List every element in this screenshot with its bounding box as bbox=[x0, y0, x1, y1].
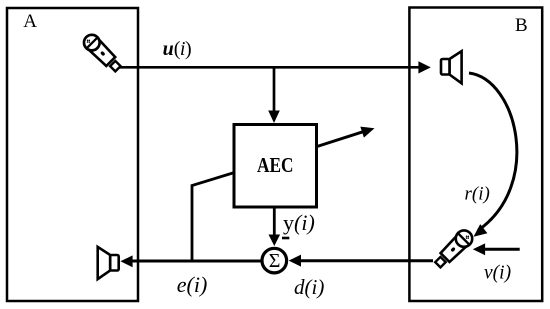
svg-text:AEC: AEC bbox=[257, 153, 294, 177]
room A box bbox=[7, 8, 138, 301]
svg-text:A: A bbox=[23, 11, 37, 32]
svg-text:Σ: Σ bbox=[269, 250, 281, 272]
echo path r(i) curve from loudspeaker B to microphone B bbox=[469, 73, 517, 237]
svg-text:r(i): r(i) bbox=[465, 183, 490, 204]
svg-text:B: B bbox=[515, 15, 528, 36]
wire branch u(i) down into AEC bbox=[268, 66, 280, 123]
near-end signal arrow v(i) into microphone B bbox=[473, 243, 520, 255]
svg-text:d(i): d(i) bbox=[294, 275, 324, 299]
feedback wire from e(i) into AEC bbox=[192, 173, 234, 262]
wire u(i) from microphone A to loudspeaker B bbox=[118, 61, 431, 73]
room B box bbox=[409, 8, 542, 302]
summator sigma bbox=[262, 248, 287, 273]
wire y(i) from AEC to summator bbox=[269, 207, 281, 246]
svg-text:y(i): y(i) bbox=[283, 210, 315, 235]
AEC block bbox=[234, 125, 317, 208]
svg-text:v(i): v(i) bbox=[484, 262, 511, 283]
microphone (room B) bbox=[432, 227, 476, 271]
minus sign bbox=[282, 237, 289, 240]
microphone (room A) bbox=[81, 31, 124, 74]
loudspeaker (room A) bbox=[98, 247, 119, 279]
wire d(i) from microphone B to summator bbox=[289, 255, 433, 267]
wire e(i) from summator to loudspeaker A bbox=[120, 255, 261, 267]
svg-text:u(i): u(i) bbox=[163, 38, 192, 60]
loudspeaker (room B) bbox=[441, 51, 462, 83]
output arrow from AEC to upper right bbox=[317, 127, 375, 147]
svg-text:e(i): e(i) bbox=[177, 272, 208, 297]
